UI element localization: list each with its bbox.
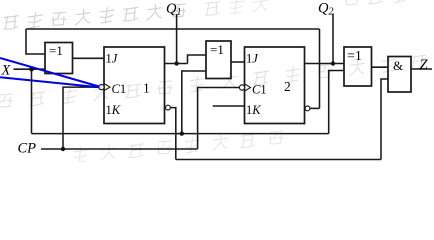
svg-text:1J: 1J (106, 52, 119, 66)
node CP junction (61, 147, 65, 151)
wire Q1' output of U1 (170, 108, 176, 160)
xor gate G2 box (206, 41, 231, 79)
wire Q2 output of U2 to G3 upper input (305, 63, 345, 65)
node Q1 junction (174, 61, 178, 65)
wire CP riser to C1 of U1 (63, 87, 99, 149)
wire Q1 step to G2 upper input (188, 55, 207, 64)
svg-text:C1: C1 (112, 82, 127, 96)
svg-text:=1: =1 (210, 42, 224, 57)
wire top rail left drop to G1 upper input (26, 29, 45, 54)
blue annotation line upper (0, 58, 99, 87)
svg-text:&: & (393, 58, 403, 73)
wire 1K stub of U2 (213, 105, 245, 107)
wire G1 output to 1J of U1 (73, 57, 105, 59)
node X bus junction (180, 131, 184, 135)
svg-text:1K: 1K (246, 103, 261, 117)
bubble C1 of U2 (239, 85, 244, 90)
svg-text:=1: =1 (347, 49, 362, 64)
svg-text:Q2: Q2 (318, 1, 333, 18)
wire Q1 label drop (176, 14, 178, 64)
wire top rail right drop to Q2' line (319, 29, 321, 108)
wire AND output to Z (411, 68, 432, 70)
svg-text:2: 2 (284, 79, 291, 94)
wire from Q2' bubble of U2 (310, 107, 320, 109)
wire CP riser to C1 of U2 (198, 88, 240, 150)
dynamic wedge C1 of U1 (104, 84, 110, 91)
wire G3 output to AND upper input (372, 66, 389, 68)
wire top rail (Q2' bus) (26, 28, 320, 30)
wire X bus rail bottom (32, 133, 329, 135)
xor gate G3 box (344, 47, 372, 86)
blue annotation line lower (0, 77, 99, 87)
wire X bus riser to G2 lower input (182, 71, 206, 134)
node Q2 junction (331, 61, 335, 65)
wire Q1 output of U1 (165, 63, 188, 65)
bubble Q2' of U2 (305, 106, 310, 111)
flip-flop U2 box (245, 47, 305, 124)
bubble C1 of U1 (99, 85, 104, 90)
svg-text:CP: CP (18, 141, 37, 157)
wire bottom rail riser to AND lower input (381, 79, 388, 160)
dynamic wedge C1 of U2 (245, 84, 251, 91)
svg-text:Z: Z (420, 57, 429, 73)
svg-text:1J: 1J (246, 52, 259, 66)
wire X input to G1 lower input (14, 68, 46, 70)
wire CP rail (41, 148, 198, 150)
xor gate G1 box (45, 43, 73, 74)
wire Q2 label drop (332, 14, 334, 64)
wire X branch down (31, 69, 33, 133)
watermark row 2 (0, 54, 425, 108)
wire Q1' bottom rail (176, 159, 381, 161)
svg-text:1K: 1K (106, 103, 121, 117)
flip-flop U1 box (104, 47, 165, 124)
watermark row 3 (73, 130, 284, 163)
svg-text:Q1: Q1 (166, 1, 181, 18)
svg-text:1: 1 (143, 81, 150, 96)
watermark row 1 (3, 0, 407, 30)
bubble Q1' of U1 (166, 105, 171, 110)
svg-text:C1: C1 (252, 83, 267, 97)
svg-text:X: X (1, 63, 12, 79)
node X junction (29, 67, 34, 72)
svg-text:=1: =1 (49, 43, 63, 58)
wire X bus right riser to G3 lower input (329, 71, 344, 134)
wire G2 output to 1J of U2 (231, 61, 245, 63)
and gate U3 box (388, 57, 411, 93)
